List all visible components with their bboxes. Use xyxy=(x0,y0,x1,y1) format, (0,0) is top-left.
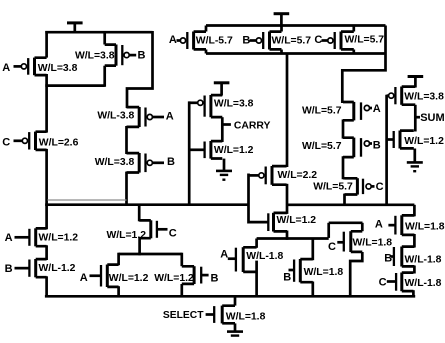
svg-text:A: A xyxy=(2,62,10,74)
pmos W/L=3.8 (sum inverter pull-up) xyxy=(387,87,416,105)
pmos gate B W/L=5.7 (parallel 2) xyxy=(250,32,282,50)
svg-text:C: C xyxy=(314,34,322,46)
wire parallel2 stubs to rails xyxy=(280,26,283,54)
wire left column x=46.6 (rail to pmos A) xyxy=(45,31,48,58)
svg-text:W/L-1.8: W/L-1.8 xyxy=(405,254,442,265)
svg-text:W/L=1.2: W/L=1.2 xyxy=(109,273,149,284)
svg-text:A: A xyxy=(166,111,174,123)
svg-text:W/L=2.2: W/L=2.2 xyxy=(278,170,318,181)
svg-text:W/L=5.7: W/L=5.7 xyxy=(302,141,342,152)
vdd symbol (top-middle block) xyxy=(274,14,290,27)
wire right edge of 5.7 block down and left to series chain xyxy=(342,26,385,104)
nmos gate B W/L=1.8 (bottom-centre) xyxy=(289,259,313,282)
nmos SELECT W/L=1.8 xyxy=(206,306,235,324)
svg-text:SELECT: SELECT xyxy=(163,310,204,321)
svg-text:W/L-1.8: W/L-1.8 xyxy=(405,278,442,289)
svg-text:C: C xyxy=(379,277,387,289)
wire carry gate input column xyxy=(188,101,191,206)
nmos gate C W/L=1.8 (centre-right) xyxy=(337,231,362,252)
nmos gate B W/L=1.2 (parallel box) xyxy=(182,266,209,284)
svg-text:W/L=5.7: W/L=5.7 xyxy=(302,106,342,117)
wire 5.7 block output drop x=287 xyxy=(286,54,289,168)
wire carry-bar rail drop to nmos C xyxy=(138,204,141,222)
svg-text:A: A xyxy=(373,103,381,115)
nmos gate B W/L-1.2 (left stack) xyxy=(15,259,47,277)
svg-text:W/L=3.8: W/L=3.8 xyxy=(214,99,254,110)
wire bottom-centre box left edge upper xyxy=(255,239,258,248)
node SUM output tick xyxy=(415,116,420,119)
wire pmos B drain to top rail xyxy=(103,31,106,45)
ground (select nmos) xyxy=(227,323,243,341)
wire bottom-centre box right edge upper xyxy=(311,239,314,261)
wire bottom rail of 5.7 block xyxy=(206,52,386,55)
svg-text:B: B xyxy=(138,50,146,62)
wire C-block left edge xyxy=(327,223,330,238)
svg-text:C: C xyxy=(376,181,384,193)
wire right chain C to sum-bar rail xyxy=(343,194,346,206)
wire right edge of top-left block down to series pair xyxy=(127,31,153,108)
wire top rail of 5.7 block xyxy=(206,24,386,27)
svg-text:W/L=3.8: W/L=3.8 xyxy=(38,63,78,74)
svg-text:W/L=1.2: W/L=1.2 xyxy=(39,232,79,243)
svg-text:W/L-5.7: W/L-5.7 xyxy=(196,35,233,46)
svg-text:A: A xyxy=(169,34,177,46)
svg-text:CARRY: CARRY xyxy=(234,121,271,132)
wire carry inverter output xyxy=(221,117,224,142)
svg-text:W/L=1.2: W/L=1.2 xyxy=(404,136,444,147)
wire sum-bar rail y=204.8 xyxy=(287,203,414,206)
vdd symbol (sum inverter) xyxy=(408,77,424,88)
wire right chain B-C xyxy=(413,266,416,274)
wire right chain C to bottom rail xyxy=(412,290,415,296)
wire right chain between A and B xyxy=(342,119,345,138)
svg-text:B: B xyxy=(211,273,219,285)
wire left stack B down to bottom rail xyxy=(45,276,48,296)
pmos gate A W/L-3.8 (series pair upper) xyxy=(127,107,165,127)
wire long bottom rail y=296.3 xyxy=(45,295,415,298)
svg-text:C: C xyxy=(169,227,177,239)
nmos gate A W/L-1.8 (bottom-centre) xyxy=(228,247,257,272)
wire C-block drain stub up xyxy=(361,223,364,231)
ground (sum inverter) xyxy=(407,149,423,173)
nmos gate A W/L=1.2 (left stack) xyxy=(15,228,47,246)
wire sum gate column x=386.6 xyxy=(385,95,388,206)
wire parallel3 stubs to rails xyxy=(352,26,355,54)
svg-text:W/L=1.8: W/L=1.8 xyxy=(304,267,344,278)
nmos gate A W/L=1.8 (right chain) xyxy=(388,215,414,235)
svg-text:A: A xyxy=(80,272,88,284)
nmos W/L=1.2 (carry inverter pull-down) xyxy=(189,141,222,159)
nmos gate C W/L=1.2 (middle) xyxy=(139,220,167,238)
wire parallel box right edge upper xyxy=(180,253,183,267)
nmos gate C W/L-1.8 (right chain) xyxy=(387,273,414,292)
svg-text:C: C xyxy=(328,241,336,253)
wire pmos2.2 gate down to central nmos gate xyxy=(249,174,269,223)
wire select drain to bottom rail xyxy=(234,296,237,305)
wire central nmos source down to bottom-centre box xyxy=(286,231,289,240)
ground (carry inverter) xyxy=(216,159,232,181)
svg-text:W/L=1.2: W/L=1.2 xyxy=(154,273,194,284)
svg-text:B: B xyxy=(384,253,392,265)
svg-text:SUM: SUM xyxy=(420,112,444,124)
wire pmos B source to bottom rail xyxy=(103,66,106,87)
svg-text:W/L=3.8: W/L=3.8 xyxy=(95,157,135,168)
wire bottom rail of top-left block xyxy=(45,84,104,87)
vdd symbol (carry inverter) xyxy=(214,83,230,96)
wire left column rail to nmos A xyxy=(45,204,48,230)
pmos gate A W/L=5.7 (right chain) xyxy=(343,102,372,121)
wire C-block top rail xyxy=(329,221,363,224)
wire bottom-centre box left edge lower xyxy=(255,261,258,297)
vdd symbol (top-left block) xyxy=(67,23,83,32)
wire C-block source jog down-left to bottom rail xyxy=(350,252,362,296)
node CARRY output tick xyxy=(222,123,231,126)
svg-text:W/L=1.8: W/L=1.8 xyxy=(405,221,445,232)
wire left column (pmos A to pmos C) xyxy=(45,74,48,133)
pmos gate B W/L=5.7 (right chain) xyxy=(343,138,372,158)
nmos gate B W/L-1.8 (right chain) xyxy=(391,247,415,267)
wire right chain A-B xyxy=(413,234,416,248)
nmos gate A W/L=1.2 (parallel box) xyxy=(90,265,119,288)
svg-text:W/L=5.7: W/L=5.7 xyxy=(313,182,353,193)
wire parallel box left edge lower xyxy=(117,286,120,296)
svg-text:B: B xyxy=(373,139,381,151)
wire sum-bar rail drop to right nmos chain xyxy=(413,205,416,217)
wire pmos2.2 drain column x=287 xyxy=(286,184,289,214)
svg-text:W/L=1.2: W/L=1.2 xyxy=(277,215,317,226)
wire parallel1 stubs to rails xyxy=(205,26,208,54)
pmos gate C W/L=2.6 xyxy=(14,132,47,150)
svg-text:B: B xyxy=(242,34,250,46)
pmos gate B W/L=3.8 (series pair lower) xyxy=(127,153,165,173)
svg-text:C: C xyxy=(2,136,10,148)
wire faint short rail y=200 xyxy=(48,199,127,201)
svg-text:A: A xyxy=(5,232,13,244)
wire parallel box left edge upper xyxy=(117,253,120,266)
svg-text:A: A xyxy=(375,218,383,230)
wire sum inverter output xyxy=(414,105,417,132)
wire left stack between A and B xyxy=(45,245,48,260)
pmos gate C W/L=5.7 (parallel 3) xyxy=(322,32,354,50)
svg-text:W/L=1.2: W/L=1.2 xyxy=(214,145,254,156)
svg-text:W/L=1.8: W/L=1.8 xyxy=(353,237,393,248)
wire between series pmos A and B xyxy=(125,126,128,154)
wire nmos C source down to parallel box xyxy=(138,237,141,255)
svg-text:W/L=1.8: W/L=1.8 xyxy=(226,311,266,322)
svg-text:W/L-1.2: W/L-1.2 xyxy=(39,263,76,274)
svg-text:W/L-1.8: W/L-1.8 xyxy=(246,251,283,262)
wire series pmos B to carry-bar rail xyxy=(125,172,128,206)
wire parallel box right edge lower xyxy=(180,284,183,296)
svg-text:W/L=2.6: W/L=2.6 xyxy=(39,137,79,148)
svg-text:A: A xyxy=(220,249,228,261)
pmos gate A W/L=3.8 (top-left box) xyxy=(14,58,47,76)
wire right chain between B and C xyxy=(343,156,345,179)
wire parallel box top rail xyxy=(119,253,182,256)
nmos W/L=1.2 (sum inverter pull-down) xyxy=(387,131,414,149)
svg-text:W/L=3.8: W/L=3.8 xyxy=(404,92,444,103)
wire bottom-centre box top rail xyxy=(257,237,329,240)
pmos W/L=2.2 xyxy=(249,166,287,185)
svg-text:W/L=3.8: W/L=3.8 xyxy=(75,50,115,61)
pmos W/L=3.8 (carry inverter pull-up) xyxy=(189,95,222,117)
wire carry-bar rail y=204.7 xyxy=(45,203,248,206)
wire left column (pmos C to carry-bar rail) xyxy=(45,149,48,206)
svg-text:W/L=5.7: W/L=5.7 xyxy=(345,35,385,46)
svg-text:W/L-3.8: W/L-3.8 xyxy=(97,111,134,122)
wire bottom-centre box right edge lower xyxy=(311,282,314,297)
wire top rail of top-left block xyxy=(45,31,152,34)
svg-text:W/L=5.7: W/L=5.7 xyxy=(272,35,312,46)
nmos W/L=1.2 (central) xyxy=(268,213,287,232)
pmos gate A W/L-5.7 (parallel 1) xyxy=(177,32,207,50)
svg-text:B: B xyxy=(283,272,291,284)
svg-text:B: B xyxy=(5,263,13,275)
pmos gate B W/L=3.8 (top-left box) xyxy=(105,45,137,66)
pmos gate C W/L=5.7 (right chain) xyxy=(345,178,375,194)
svg-text:B: B xyxy=(167,156,175,168)
